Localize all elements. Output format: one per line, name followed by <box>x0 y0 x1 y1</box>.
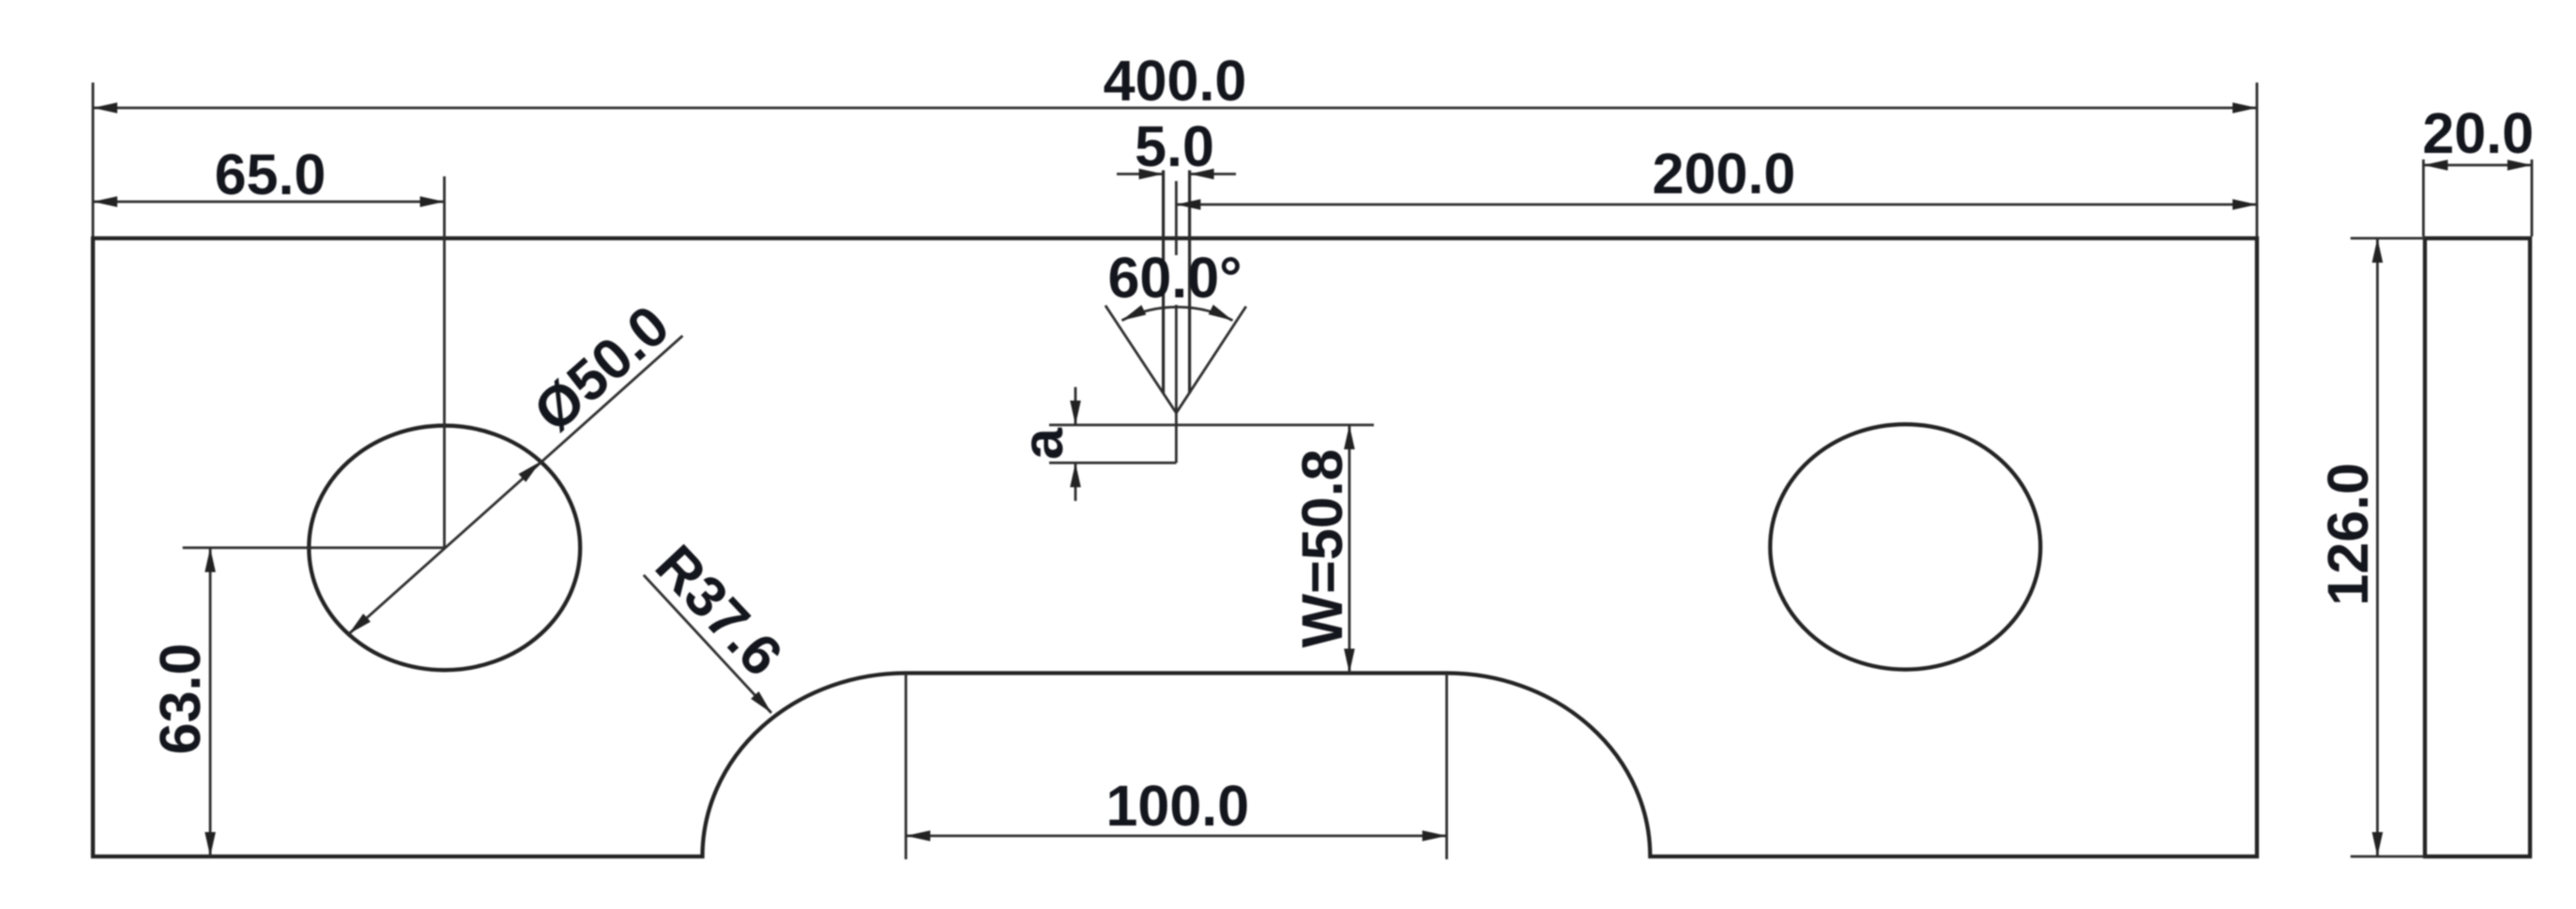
hole right <box>1770 424 2040 669</box>
a dim line lower segment <box>1075 462 1077 501</box>
a bottom extension line <box>1049 462 1176 464</box>
V-notch flank left <box>1105 306 1177 414</box>
R37.6 leader line <box>644 575 771 713</box>
dimension 63.0: horizontal extension line at hole center <box>183 547 445 550</box>
60deg arc arrow left <box>1121 305 1146 321</box>
svg-text:a: a <box>1011 427 1075 460</box>
20.0 dim line <box>2423 164 2532 167</box>
a arrow top (down) <box>1070 401 1081 425</box>
dimension 5.0 left tail <box>1117 173 1164 175</box>
400.0 extension line right <box>2256 83 2259 236</box>
400.0 arrow right <box>2233 102 2257 114</box>
svg-text:400.0: 400.0 <box>1104 49 1247 113</box>
dimension 200.0 dim line <box>1176 204 2257 206</box>
dimension W=50.8 dim line <box>1349 425 1351 674</box>
5.0 right tail <box>1190 173 1236 175</box>
dimension 126.0: top extension line <box>2351 237 2425 240</box>
a arrow bottom (up) <box>1070 462 1081 487</box>
V-notch flank right <box>1176 307 1245 414</box>
400.0 extension line left <box>92 83 95 236</box>
100.0 arrow right <box>1423 830 1447 841</box>
crack centerline through V to tip <box>1175 305 1178 462</box>
5.0 arrow left <box>1139 169 1164 180</box>
20.0 arrow right <box>2507 159 2532 171</box>
svg-text:20.0: 20.0 <box>2422 101 2534 165</box>
126.0 dim line <box>2376 238 2379 856</box>
svg-text:200.0: 200.0 <box>1653 142 1796 205</box>
hole left (Ø50) <box>309 426 580 671</box>
dimension 400.0 dim line <box>93 107 2257 110</box>
60deg arc arrow right <box>1209 305 1233 321</box>
63.0 arrow bottom (down) <box>205 832 216 856</box>
100.0 dim line <box>906 835 1446 838</box>
65.0 arrow left <box>93 196 117 207</box>
svg-text:Ø50.0: Ø50.0 <box>522 293 681 444</box>
5.0 arrow right <box>1190 169 1214 180</box>
a dim line upper segment <box>1075 387 1077 425</box>
svg-text:100.0: 100.0 <box>1105 774 1249 838</box>
65.0 extension line (hole centerline vertical) <box>443 176 446 548</box>
60 degree angle arc <box>1121 307 1232 320</box>
svg-text:5.0: 5.0 <box>1135 114 1214 178</box>
20.0 extension line right <box>2530 159 2533 236</box>
notch centerline upper segment <box>1175 181 1178 255</box>
126.0 arrow bottom (down) <box>2372 832 2384 856</box>
100.0 arrow left <box>906 830 930 841</box>
side view outline <box>2425 238 2530 856</box>
126.0 bottom extension line <box>2351 856 2425 858</box>
crack depth a: top extension line <box>1049 424 1374 427</box>
dimension 65.0 dim line <box>93 201 445 204</box>
W arrow bottom (down) <box>1344 649 1355 674</box>
V-notch slot left edge <box>1162 171 1165 394</box>
R37.6 leader arrow <box>751 691 771 713</box>
Ø50 arrow lower <box>349 614 371 634</box>
20.0 arrow left <box>2423 159 2447 171</box>
Ø50 arrow upper <box>519 462 541 482</box>
Ø50.0 diameter line <box>349 336 683 634</box>
svg-text:126.0: 126.0 <box>2316 462 2380 606</box>
63.0 arrow top (up) <box>205 548 216 572</box>
V-notch slot right edge <box>1188 171 1191 394</box>
svg-text:63.0: 63.0 <box>148 644 212 755</box>
dimension 100.0: extension line left <box>905 674 907 860</box>
svg-text:60.0°: 60.0° <box>1107 246 1242 310</box>
400.0 arrow left <box>93 102 117 114</box>
126.0 arrow top (up) <box>2372 238 2384 263</box>
specimen front-view outline <box>93 238 2257 856</box>
svg-text:65.0: 65.0 <box>215 143 327 206</box>
100.0 extension line right <box>1445 674 1448 860</box>
W arrow top (up) <box>1344 425 1355 449</box>
svg-text:W=50.8: W=50.8 <box>1290 449 1354 648</box>
65.0 arrow right <box>420 196 445 207</box>
200.0 arrow right <box>2233 199 2257 210</box>
63.0 dim line <box>209 548 212 856</box>
200.0 arrow left <box>1176 199 1200 210</box>
dimension 20.0: extension line left <box>2422 159 2425 236</box>
svg-text:R37.6: R37.6 <box>644 533 795 688</box>
